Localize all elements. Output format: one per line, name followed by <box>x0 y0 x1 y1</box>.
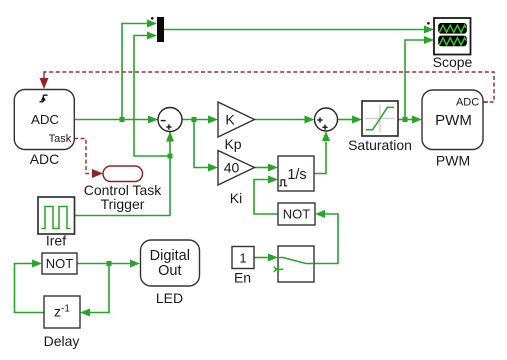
svg-text:PWM: PWM <box>436 153 470 169</box>
svg-text:PWM: PWM <box>435 112 472 129</box>
junction on Saturation output line <box>403 117 408 122</box>
mux <box>157 17 164 42</box>
svg-text:1: 1 <box>239 250 246 265</box>
En constant block <box>232 247 254 269</box>
svg-text:Delay: Delay <box>44 333 80 349</box>
svg-text:Trigger: Trigger <box>101 196 145 212</box>
svg-text:Saturation: Saturation <box>348 137 412 153</box>
wire node to Mux input 1 <box>122 24 148 120</box>
NOT block <box>42 253 77 274</box>
arrow into integrator input 1 <box>268 164 278 172</box>
wire Saturation output to PWM <box>398 119 413 121</box>
arrow into integrator reset input <box>268 176 278 184</box>
wire solid elbow into ADC trigger arrow <box>44 71 488 102</box>
arrow into Scope input 2 <box>424 36 434 44</box>
mux annotation dot <box>151 17 154 20</box>
wire En constant to switch <box>254 257 269 259</box>
sum block Sum1 <box>158 108 182 132</box>
svg-text:ADC: ADC <box>31 112 59 127</box>
wire Sum2 output to Saturation <box>338 119 353 121</box>
wire branch down to Delay input <box>90 264 110 313</box>
svg-text:ADC: ADC <box>30 151 60 167</box>
arrow into Sum2 left <box>305 116 315 124</box>
wire integrator output to Sum2 plus input <box>314 142 326 174</box>
svg-text:1/s: 1/s <box>287 167 306 183</box>
arrow into gain K <box>208 116 218 124</box>
wire Delay output back to NOT <box>15 264 45 313</box>
svg-text:Out: Out <box>158 263 181 279</box>
junction on Iref line <box>168 154 173 159</box>
PWM block <box>422 90 483 150</box>
arrow into gain Kp <box>208 164 218 172</box>
integrator block 1/s <box>278 156 314 191</box>
svg-text:Digital: Digital <box>150 248 190 264</box>
svg-text:40: 40 <box>224 159 240 175</box>
svg-text:En: En <box>234 270 251 286</box>
svg-text:Kp: Kp <box>224 136 241 152</box>
manual switch block <box>274 246 314 282</box>
arrow into PWM <box>412 116 422 124</box>
svg-text:K: K <box>225 111 235 127</box>
arrow into Scope input 1 <box>424 26 434 34</box>
wire gain K to Sum2 <box>255 119 306 121</box>
arrow into Control Task Trigger <box>92 169 103 178</box>
wire NOT2 output to integrator reset input <box>254 180 278 215</box>
junction on Sum1 output line <box>192 117 197 122</box>
ADC block <box>14 90 74 150</box>
Iref pulse generator <box>38 197 75 234</box>
arrow into Sum1 <box>148 116 158 124</box>
svg-text:Scope: Scope <box>433 54 473 70</box>
wire switch output to NOT2 <box>314 214 338 264</box>
wire Sum1 output to gain K <box>182 119 209 121</box>
Control Task Trigger oval <box>103 166 143 182</box>
arrow into Mux input 2 <box>147 32 157 40</box>
wire Saturation branch to Scope input 2 <box>405 40 425 120</box>
wire branch down to gain Kp <box>194 120 209 168</box>
wire Mux output to Scope input 1 <box>164 29 425 31</box>
wire NOT to Digital Out <box>77 263 131 265</box>
arrow into Digital Out <box>130 260 140 268</box>
sum block Sum2 <box>315 108 338 131</box>
arrow into ADC trigger port <box>40 78 49 89</box>
Digital Out block <box>141 240 200 286</box>
arrow into Sum1 bottom <box>166 132 174 142</box>
arrow into Saturation <box>352 116 362 124</box>
wire ADC Task port to Control Task Trigger (dashed) <box>74 139 93 174</box>
arrow into NOT2 <box>315 210 325 218</box>
gain Ki (40) <box>218 151 255 186</box>
wire Iref branch to Mux input 2 <box>134 36 170 157</box>
Delay block z^-1 <box>44 296 80 328</box>
svg-text:NOT: NOT <box>283 207 311 222</box>
arrow into NOT <box>32 260 42 268</box>
svg-text:Task: Task <box>49 133 72 145</box>
Scope block <box>434 18 471 55</box>
gain K <box>218 102 255 137</box>
wire gain Kp to integrator input 1 <box>255 167 269 169</box>
NOT2 block <box>278 203 315 225</box>
svg-text:NOT: NOT <box>46 256 74 271</box>
arrow into Delay <box>80 309 90 317</box>
wire PWM ADC port to ADC trigger (dashed) <box>44 72 494 102</box>
svg-text:Iref: Iref <box>46 232 66 248</box>
arrow into switch <box>268 254 278 262</box>
wire ADC output to Sum1 <box>74 119 158 121</box>
svg-text:ADC: ADC <box>456 97 479 109</box>
junction on ADC output line <box>120 117 125 122</box>
scope annotation dot <box>427 22 430 25</box>
arrow into Sum2 bottom <box>322 131 330 141</box>
wire Iref output up to Sum1 plus input <box>74 132 170 216</box>
Saturation block <box>362 101 398 136</box>
junction on NOT output line <box>107 261 112 266</box>
svg-text:LED: LED <box>156 290 183 306</box>
arrow into Mux input 1 <box>147 20 157 28</box>
svg-text:Ki: Ki <box>230 190 242 206</box>
